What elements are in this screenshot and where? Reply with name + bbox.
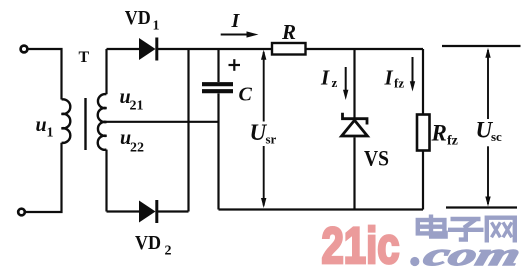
- label I: [231, 10, 241, 32]
- transformer T primary winding: [62, 99, 71, 142]
- terminal: input bottom: [18, 209, 25, 216]
- wire: primary bottom to bottom terminal: [25, 143, 62, 212]
- terminal: input top: [21, 46, 28, 53]
- svg-text:R: R: [431, 121, 447, 146]
- resistor R: [272, 43, 306, 55]
- polarity plus of C: [229, 59, 241, 71]
- svg-text:sr: sr: [266, 132, 277, 147]
- svg-text:com: com: [420, 237, 521, 267]
- wire: secondary bottom to VD2 anode: [107, 210, 141, 212]
- svg-text:VD: VD: [135, 232, 161, 254]
- label VD2: [135, 232, 172, 259]
- wire: zener top lead: [353, 49, 355, 118]
- transformer T core: [84, 98, 86, 150]
- reference bar bottom for Usc: [446, 206, 517, 208]
- diode VD2: [139, 200, 157, 223]
- svg-text:21: 21: [130, 99, 144, 114]
- label Iz: [320, 66, 338, 91]
- svg-text:VS: VS: [364, 146, 389, 171]
- label Rfz: [431, 121, 458, 149]
- svg-text:I: I: [320, 66, 330, 90]
- svg-text:R: R: [281, 20, 296, 44]
- label Usc: [476, 118, 503, 145]
- wire: bottom rail: [219, 208, 424, 210]
- svg-text:z: z: [332, 75, 338, 90]
- label VD1: [125, 7, 160, 34]
- current arrow Iz: [343, 67, 348, 100]
- zener diode VS: [342, 113, 368, 136]
- reference bar top for Usc: [442, 45, 521, 47]
- capacitor C: [202, 49, 233, 210]
- voltage arrow Usr: [261, 50, 266, 208]
- svg-text:sc: sc: [491, 129, 502, 144]
- label R: [281, 20, 296, 44]
- svg-text:I: I: [231, 10, 241, 32]
- wire: secondary bottom lead: [105, 150, 107, 212]
- label Ifz: [384, 66, 405, 91]
- svg-text:21ic: 21ic: [322, 217, 400, 267]
- wire: VD2 cathode riser: [187, 49, 189, 212]
- svg-text:u: u: [36, 114, 47, 136]
- wire: center tap to capacitor bottom node: [107, 121, 219, 123]
- current arrow I: [221, 31, 259, 37]
- label u21: [120, 86, 144, 114]
- transformer secondary winding u21 u22: [98, 94, 107, 150]
- svg-text:C: C: [239, 84, 253, 106]
- svg-text:fz: fz: [447, 134, 458, 149]
- label C: [239, 84, 253, 106]
- wire: Rfz bottom lead: [422, 151, 424, 210]
- wire: zener bottom lead: [353, 137, 355, 209]
- svg-text:1: 1: [153, 19, 160, 34]
- wire: top terminal to primary top: [28, 49, 62, 100]
- label T: [79, 49, 90, 66]
- svg-text:22: 22: [130, 141, 144, 156]
- svg-text:I: I: [384, 66, 394, 90]
- current arrow Ifz: [410, 57, 415, 92]
- svg-text:T: T: [79, 49, 90, 66]
- label u1: [36, 114, 54, 141]
- wire: secondary top to VD1 anode: [107, 48, 141, 50]
- watermark 21ic: [322, 217, 420, 267]
- svg-text:2: 2: [165, 244, 172, 259]
- label Usr: [250, 120, 277, 147]
- wire: top rail R to Rfz: [306, 48, 424, 50]
- voltage arrow Usc: [485, 48, 490, 207]
- watermark dianziwang: [418, 215, 515, 243]
- svg-text:VD: VD: [125, 7, 151, 29]
- label u22: [120, 127, 144, 156]
- wire: top rail VD1 cathode to R: [156, 48, 273, 50]
- svg-text:1: 1: [47, 126, 54, 141]
- resistor Rfz: [417, 115, 430, 151]
- svg-text:fz: fz: [394, 76, 404, 91]
- label VS: [364, 146, 389, 171]
- wire: secondary top lead: [105, 49, 107, 94]
- wire: VD2 cathode to riser: [156, 210, 189, 212]
- wire: Rfz top lead: [422, 49, 424, 115]
- diode VD1: [139, 38, 157, 61]
